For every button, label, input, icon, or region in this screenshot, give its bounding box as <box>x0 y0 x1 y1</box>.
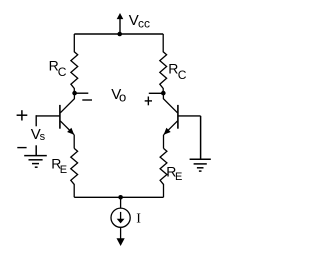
svg-text:s: s <box>40 131 46 143</box>
label RE (right) <box>166 164 182 183</box>
svg-text:E: E <box>175 171 182 183</box>
resistor RC (left) <box>71 34 78 93</box>
wire: input source riser <box>35 115 37 126</box>
label RC (right) <box>168 61 187 83</box>
resistor RC (right) <box>160 34 167 93</box>
wire: Vcc top rail <box>74 33 163 35</box>
label RE (left) <box>51 156 67 176</box>
ground (right, at Q2 base) <box>190 116 211 171</box>
wire: Q1 emitter to RE (left) <box>73 135 75 149</box>
svg-text:C: C <box>178 68 187 82</box>
current source I <box>111 208 130 227</box>
node: top rail junction dot <box>117 32 122 37</box>
wire: Q2 emitter to RE (right) <box>163 135 165 149</box>
wire: right output stub <box>149 92 164 94</box>
label: Vo minus sign <box>82 99 92 101</box>
wire: current source to tail arrow <box>120 227 122 238</box>
transistor Q2 (right NPN) <box>163 93 178 135</box>
svg-text:I: I <box>136 212 141 227</box>
wire: bottom rail <box>74 196 163 198</box>
label Vcc <box>129 12 150 30</box>
label Vo <box>111 86 126 104</box>
node: tail junction dot <box>118 195 123 200</box>
resistor RE (left) <box>71 148 78 197</box>
label Vs <box>31 126 46 143</box>
svg-text:cc: cc <box>138 16 150 30</box>
resistor RE (right) <box>160 148 167 197</box>
node: right collector junction dot <box>161 91 166 96</box>
label: Vo plus sign <box>145 97 152 106</box>
label RC (left) <box>49 58 67 80</box>
svg-text:C: C <box>58 65 67 79</box>
arrow: tail current direction (down) <box>117 238 125 246</box>
svg-text:E: E <box>60 164 67 176</box>
svg-text:o: o <box>119 90 126 105</box>
wire: tail junction to current source <box>120 197 122 208</box>
label: Vs minus sign <box>17 147 26 149</box>
ground (left, below Vs) <box>24 145 47 167</box>
wire: Q1 base lead <box>36 115 60 117</box>
transistor Q1 (left NPN) <box>60 93 75 135</box>
power symbol Vcc (arrow up) <box>117 13 124 34</box>
node: left collector junction dot <box>72 91 77 96</box>
label: input plus sign <box>17 110 28 120</box>
wire: Q2 base lead <box>178 115 201 117</box>
wire: left output stub <box>75 92 89 94</box>
